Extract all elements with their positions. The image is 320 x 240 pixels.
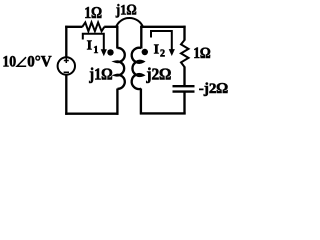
plus sign inside source (64, 58, 69, 63)
wire stub from left coil bottom (116, 89, 118, 115)
svg-text:1Ω: 1Ω (193, 45, 210, 62)
capacitor C1 bottom plate (173, 90, 195, 92)
current I2 arrow (151, 31, 172, 50)
wire between R2 and C1 (183, 67, 185, 86)
svg-text:I: I (87, 39, 92, 54)
resistor R2 1 ohm vertical zigzag (181, 40, 189, 67)
current I1 arrow (83, 34, 104, 50)
svg-text:0°V: 0°V (27, 53, 52, 70)
svg-text:j1Ω: j1Ω (88, 64, 112, 83)
svg-text:j1Ω: j1Ω (115, 2, 137, 18)
dot right winding (142, 49, 148, 55)
resistor R1 1ohm horizontal zigzag (82, 22, 104, 31)
svg-text:1Ω: 1Ω (84, 3, 102, 22)
dot left winding (107, 49, 113, 55)
svg-text:-j2Ω: -j2Ω (199, 81, 229, 97)
wire bottom rail left loop (65, 113, 118, 115)
svg-text:2: 2 (160, 49, 165, 60)
svg-text:I: I (154, 43, 159, 58)
svg-text:10: 10 (2, 53, 16, 70)
wire below C1 (183, 92, 185, 115)
mutual coupling arc (116, 18, 143, 28)
wire left rail vertical top (65, 26, 67, 58)
minus sign inside source (64, 71, 69, 73)
wire stub into right coil top (140, 26, 142, 49)
wire top rail right of R1 (104, 26, 118, 28)
angle symbol of source label (17, 57, 26, 66)
wire top-left rail (65, 26, 82, 28)
label source value 10 angle 0 deg V (2, 53, 52, 70)
wire left rail vertical bottom (65, 75, 67, 115)
svg-text:1: 1 (93, 45, 98, 56)
wire right rail down to R2 (183, 26, 185, 41)
wire stub from right coil bottom (140, 89, 142, 115)
inductor L1 left winding (116, 48, 125, 89)
svg-text:j2Ω: j2Ω (145, 64, 171, 83)
inductor L2 right winding (132, 48, 143, 89)
capacitor C1 top plate (173, 85, 195, 87)
voltage source Vs (58, 57, 75, 74)
wire bottom rail right loop (140, 112, 186, 114)
wire stub into left coil top (116, 26, 118, 49)
wire top rail right loop (140, 26, 185, 28)
